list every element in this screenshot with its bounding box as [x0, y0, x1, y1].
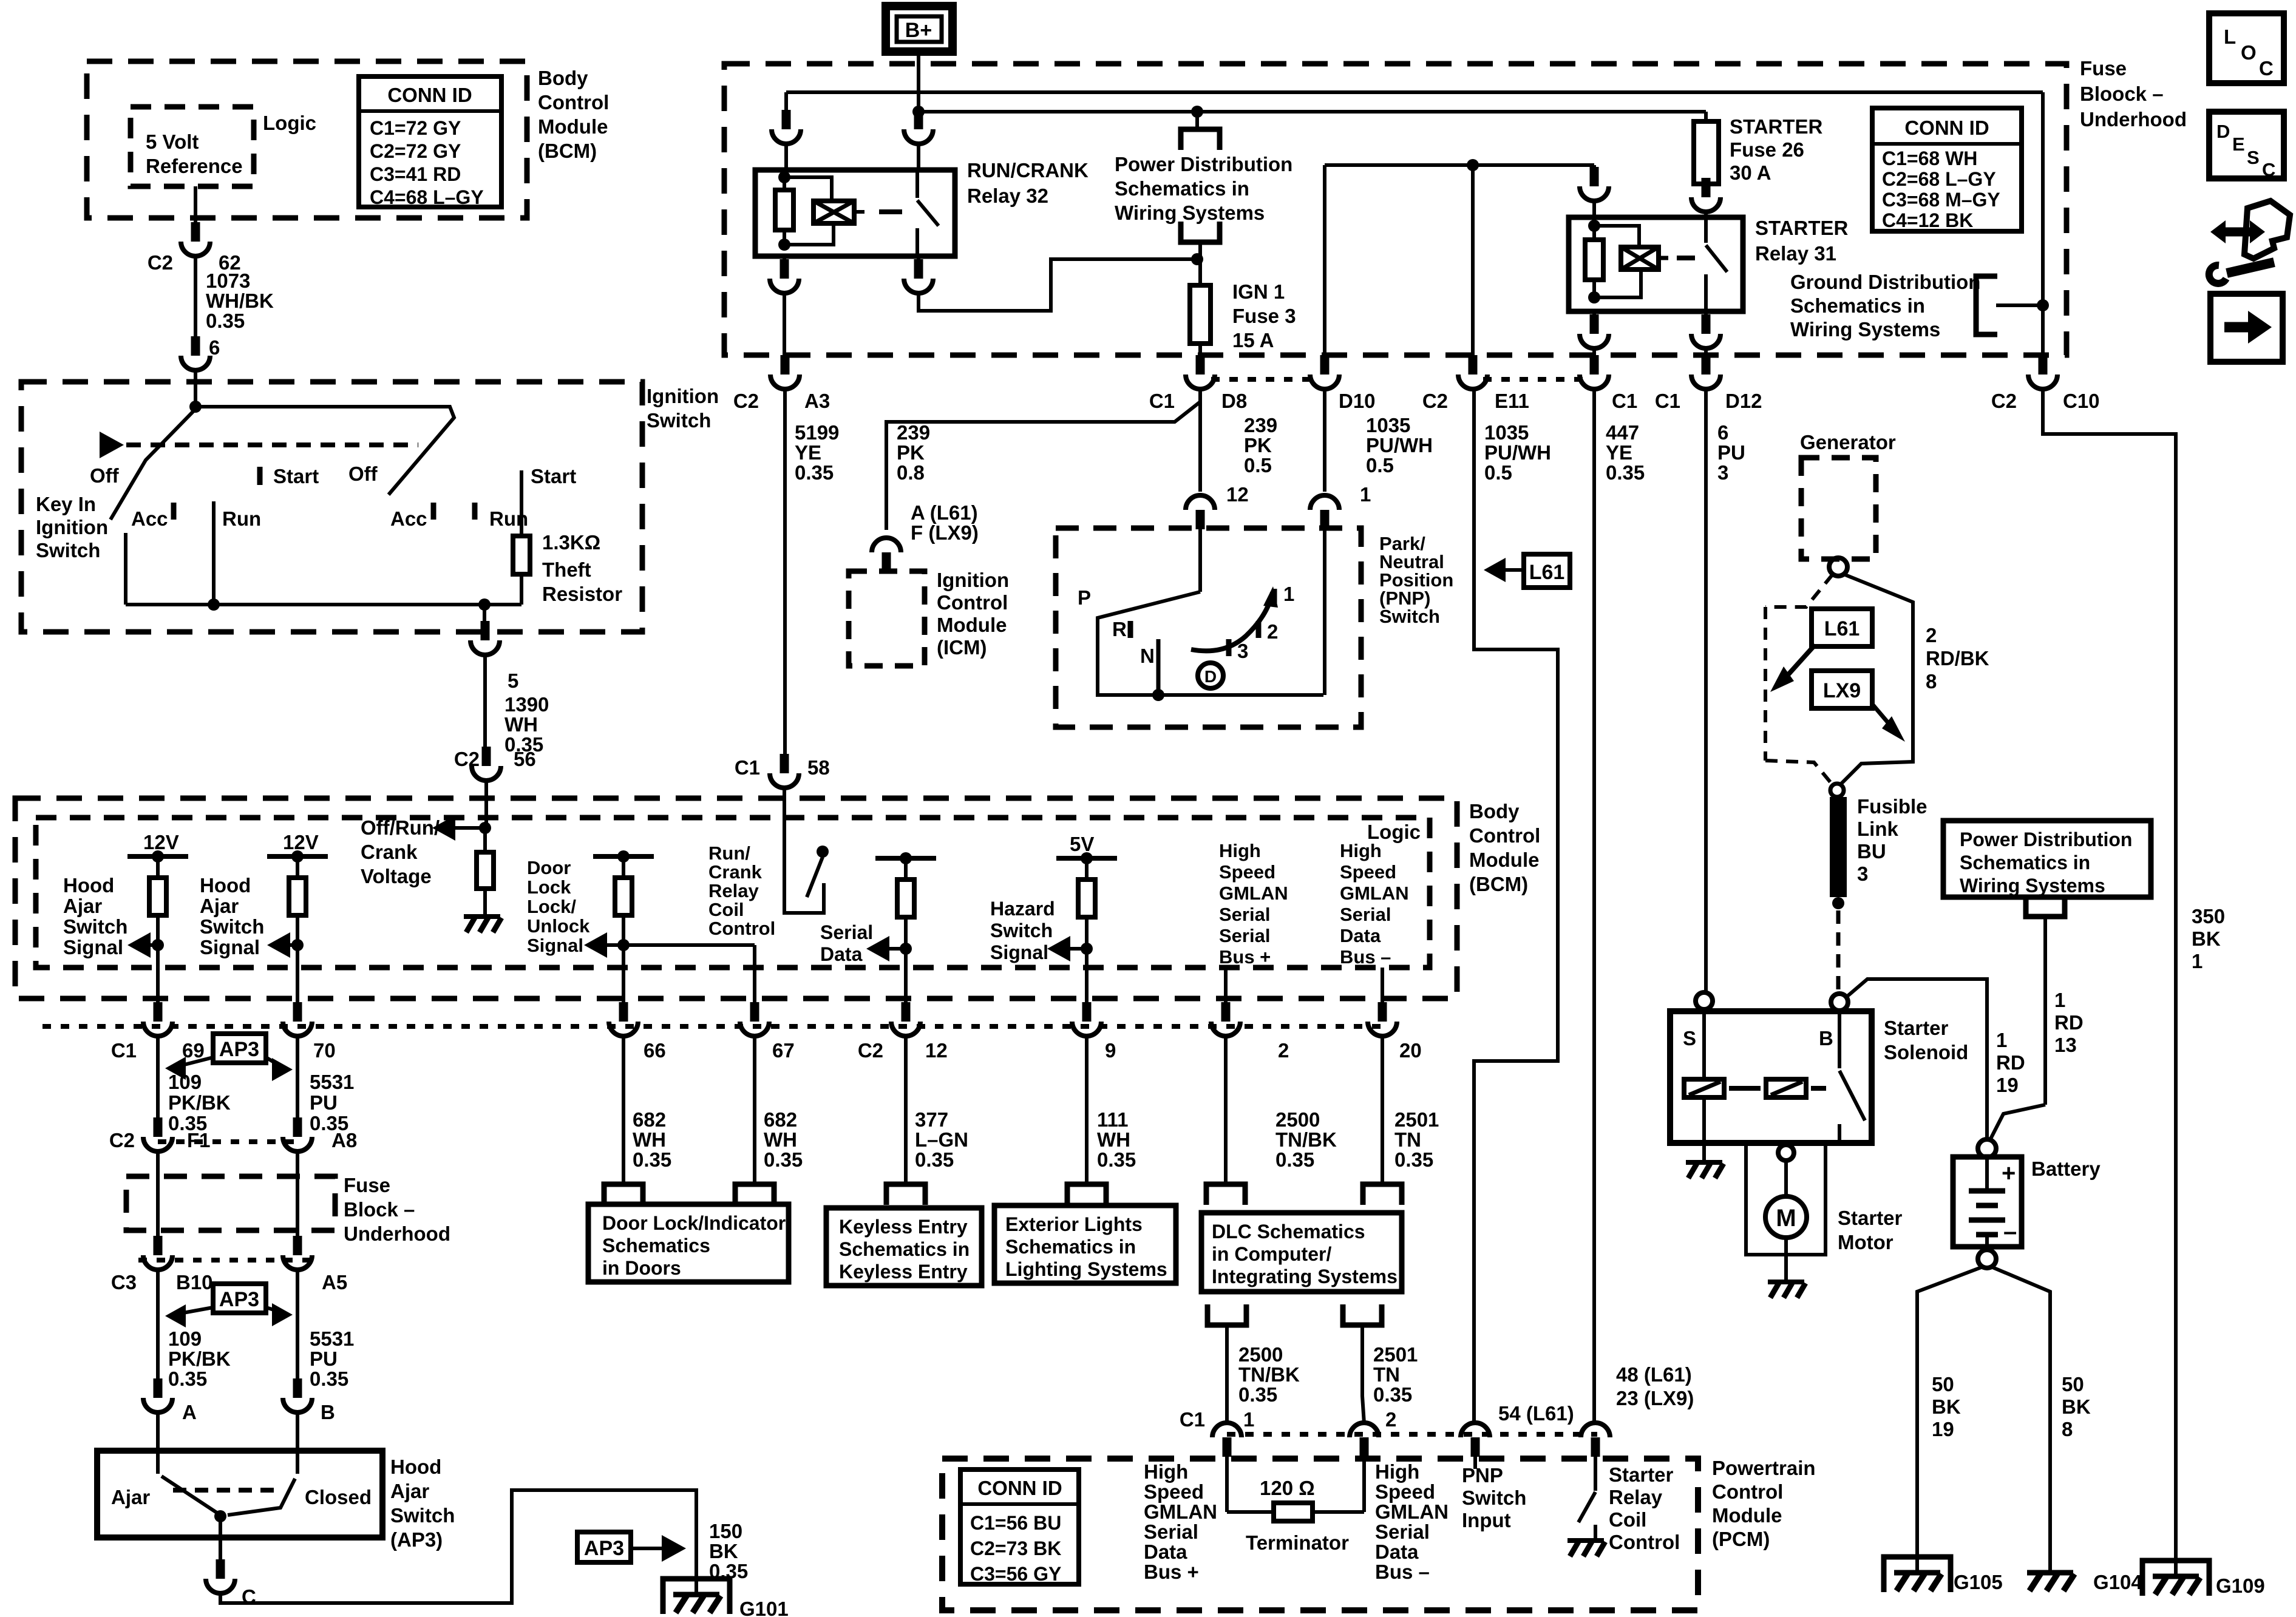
reference bracket keyless: [886, 1184, 925, 1205]
ground G109: [2142, 1561, 2209, 1596]
svg-text:1: 1: [2192, 950, 2203, 972]
reference LX9 box generator: [1812, 671, 1872, 708]
svg-text:Lighting Systems: Lighting Systems: [1005, 1258, 1167, 1280]
svg-text:S: S: [1683, 1027, 1696, 1049]
svg-text:G104: G104: [2093, 1571, 2142, 1593]
svg-text:Ajar: Ajar: [111, 1486, 150, 1508]
resistor 1.3K theft resistor: [513, 536, 530, 574]
svg-text:Schematics in: Schematics in: [1960, 852, 2090, 873]
svg-text:0.5: 0.5: [1366, 454, 1394, 476]
svg-text:Fuse 26: Fuse 26: [1730, 138, 1804, 161]
relay32 coil X box: [813, 201, 854, 223]
connector relay31 coil pin bottom: [1590, 314, 1599, 334]
svg-text:67: 67: [772, 1039, 795, 1062]
svg-text:682: 682: [633, 1108, 666, 1131]
wire C10 to G109: [2043, 389, 2176, 1578]
reference bracket under power distribution: [2026, 896, 2065, 917]
svg-text:70: 70: [313, 1039, 336, 1062]
svg-text:GMLAN: GMLAN: [1219, 883, 1288, 904]
svg-text:8: 8: [2062, 1418, 2073, 1440]
svg-text:Serial: Serial: [1375, 1520, 1430, 1543]
svg-text:Data: Data: [1340, 925, 1381, 946]
connector pin 9: [1082, 1002, 1092, 1022]
wire ignition bottom rail: [126, 603, 521, 606]
contact tick Run right: [472, 503, 478, 520]
svg-text:Ajar: Ajar: [63, 895, 102, 917]
svg-text:BK: BK: [709, 1540, 738, 1562]
svg-text:WH/BK: WH/BK: [206, 290, 274, 312]
svg-text:12V: 12V: [283, 831, 319, 853]
svg-text:RD: RD: [2054, 1011, 2084, 1034]
wire into ignition switch: [194, 371, 197, 408]
connector C1 pin D8: [1196, 355, 1205, 375]
svg-text:15 A: 15 A: [1232, 329, 1274, 351]
svg-text:Keyless Entry: Keyless Entry: [839, 1216, 968, 1238]
mechanical link hood ajar switch: [173, 1488, 274, 1493]
connector row BCM C1/C2 dotted line: [42, 1024, 1382, 1029]
svg-text:Schematics in: Schematics in: [1115, 177, 1249, 200]
svg-text:WH: WH: [764, 1128, 797, 1151]
wire door lock branch right: [623, 943, 755, 947]
connector row PCM dotted: [1227, 1432, 1597, 1437]
reference bracket door lock 66: [622, 1036, 625, 1184]
connector pin 5: [481, 621, 490, 640]
wire starter relay coil drop: [1592, 165, 1596, 182]
module box Body Control Module (BCM) upper: [87, 61, 527, 218]
node serial data pullup: [875, 856, 936, 861]
svg-text:S: S: [2247, 147, 2260, 168]
contact tick 1: [1272, 589, 1277, 606]
svg-text:L–GN: L–GN: [915, 1128, 968, 1151]
bus wire 2: [919, 110, 1706, 114]
svg-text:1035: 1035: [1366, 414, 1410, 436]
svg-text:Off: Off: [348, 463, 378, 485]
wire relay32 switch output jog: [919, 259, 1197, 311]
svg-text:Switch: Switch: [390, 1504, 455, 1527]
connector C2 pin E11: [1469, 355, 1478, 375]
svg-text:D: D: [1204, 667, 1217, 686]
svg-text:Relay: Relay: [1609, 1486, 1663, 1508]
relay31 coil circuit: [1588, 220, 1600, 232]
svg-text:1: 1: [1996, 1029, 2007, 1051]
svg-text:0.35: 0.35: [915, 1148, 954, 1171]
svg-text:A5: A5: [322, 1271, 347, 1293]
switch blade hood ajar right: [228, 1479, 295, 1515]
wire IGN1 to D8: [1198, 344, 1202, 369]
selector arc PNP: [1191, 592, 1272, 651]
svg-text:Door: Door: [527, 857, 571, 878]
svg-text:Coil: Coil: [1609, 1508, 1646, 1531]
fuse STARTER Fuse 26 30A: [1704, 112, 1708, 121]
svg-text:Module: Module: [1712, 1504, 1782, 1527]
wire hood ajar to G101: [220, 1490, 696, 1603]
svg-text:3: 3: [1857, 863, 1868, 885]
arrow serial data: [866, 936, 889, 961]
svg-text:150: 150: [709, 1520, 742, 1542]
connector starter relay coil pin top: [1590, 167, 1599, 186]
svg-text:Solenoid: Solenoid: [1884, 1041, 1968, 1063]
node generator junction: [1830, 784, 1844, 797]
svg-text:Module: Module: [538, 115, 608, 138]
svg-text:Speed: Speed: [1219, 861, 1275, 883]
wire keyless down: [904, 1036, 908, 1184]
svg-text:Serial: Serial: [1340, 904, 1391, 925]
svg-text:E11: E11: [1495, 390, 1529, 412]
svg-text:(AP3): (AP3): [390, 1528, 443, 1551]
svg-text:0.35: 0.35: [1373, 1383, 1412, 1406]
svg-text:12: 12: [1226, 483, 1249, 506]
wire fusible link to battery dashed: [1836, 910, 1841, 992]
svg-text:Unlock: Unlock: [527, 915, 590, 937]
svg-text:13: 13: [2054, 1034, 2077, 1056]
AP3 reference box lower: [213, 1284, 266, 1313]
node ignition switch common junction: [189, 401, 202, 413]
reference bracket dlc out right: [1343, 1304, 1382, 1325]
svg-text:Ignition: Ignition: [937, 569, 1009, 591]
svg-text:STARTER: STARTER: [1755, 217, 1849, 239]
svg-text:Integrating Systems: Integrating Systems: [1212, 1266, 1398, 1287]
svg-text:1390: 1390: [504, 693, 549, 716]
svg-text:Ignition: Ignition: [647, 385, 719, 407]
svg-text:58: 58: [807, 756, 830, 779]
svg-text:C: C: [2259, 57, 2274, 80]
svg-text:Starter: Starter: [1609, 1463, 1674, 1486]
contact tick Start left: [257, 467, 263, 485]
svg-text:AP3: AP3: [219, 1288, 259, 1311]
svg-text:C2: C2: [109, 1129, 135, 1151]
connector C2 pin 12: [902, 1002, 911, 1022]
wire hood2 to switch: [296, 1269, 299, 1394]
svg-text:Serial: Serial: [1219, 904, 1270, 925]
svg-text:3: 3: [1717, 461, 1728, 484]
svg-text:GMLAN: GMLAN: [1144, 1500, 1217, 1523]
wire hood ajar 2 down: [296, 945, 299, 1017]
svg-text:Closed: Closed: [305, 1486, 372, 1508]
wire generator branch LX9 dashed: [1765, 574, 1833, 607]
svg-text:A3: A3: [804, 390, 830, 412]
AP3 reference box right: [577, 1532, 631, 1562]
svg-text:+: +: [2002, 1160, 2016, 1187]
component box STARTER Relay 31: [1569, 217, 1743, 311]
svg-text:Reference: Reference: [146, 155, 243, 177]
reference box Exterior Lights Schematics in Lighting Systems: [994, 1205, 1176, 1283]
wire door lock down: [622, 945, 625, 1017]
svg-text:BK: BK: [2192, 927, 2221, 950]
svg-text:Module: Module: [937, 614, 1007, 636]
terminator circuit: [1225, 1442, 1229, 1512]
svg-text:C2=68 L–GY: C2=68 L–GY: [1882, 168, 1996, 190]
wire D8 to ICM diagonal: [886, 389, 1200, 530]
svg-text:BK: BK: [2062, 1395, 2091, 1418]
wire theft resistor to bottom rail: [520, 574, 523, 605]
reference ground distribution bracket: [1976, 276, 1997, 334]
ground G101: [663, 1579, 730, 1614]
svg-text:in Computer/: in Computer/: [1212, 1243, 1331, 1265]
node output junction: [478, 598, 491, 611]
wire D8 down to PNP: [1198, 389, 1202, 492]
svg-text:2500: 2500: [1275, 1108, 1320, 1131]
svg-text:Signal: Signal: [990, 941, 1048, 963]
wire gmlan bus- down: [1381, 968, 1384, 1017]
wire Acc contact down: [124, 533, 127, 605]
switch starter relay coil control: [1578, 1492, 1595, 1522]
node run junction: [208, 598, 220, 611]
svg-text:Speed: Speed: [1144, 1480, 1204, 1503]
svg-text:C2: C2: [148, 251, 173, 274]
svg-text:C1=56 BU: C1=56 BU: [970, 1512, 1061, 1534]
svg-text:1: 1: [1283, 583, 1294, 605]
svg-text:R: R: [1112, 618, 1127, 640]
svg-text:56: 56: [514, 748, 536, 770]
wire hood1 through fuse block: [156, 1153, 160, 1251]
svg-text:YE: YE: [1606, 441, 1632, 464]
svg-text:Motor: Motor: [1838, 1231, 1894, 1253]
CONN ID table PCM: [960, 1470, 1079, 1584]
svg-text:(ICM): (ICM): [937, 636, 987, 659]
svg-text:Module: Module: [1469, 849, 1539, 871]
solenoid coil 1: [1684, 1079, 1724, 1097]
svg-text:Wiring Systems: Wiring Systems: [1960, 875, 2105, 897]
svg-text:2501: 2501: [1394, 1108, 1439, 1131]
wire B terminal 1 RD 19: [1847, 979, 1987, 1139]
svg-text:0.35: 0.35: [764, 1148, 803, 1171]
wire 1390 WH: [483, 656, 487, 748]
connector C2 pin C10: [2039, 355, 2048, 375]
module box Body Control Module lower: [15, 798, 1457, 998]
svg-text:Schematics: Schematics: [602, 1235, 710, 1256]
svg-text:9: 9: [1105, 1039, 1116, 1062]
node PNP N junction: [1152, 689, 1164, 701]
svg-text:C1=72 GY: C1=72 GY: [370, 117, 461, 139]
svg-text:TN: TN: [1394, 1128, 1421, 1151]
key path dashed with arrow: [100, 432, 124, 458]
wire gmlan bus+ down: [1224, 968, 1228, 1017]
svg-text:C1: C1: [1655, 390, 1680, 412]
svg-text:AP3: AP3: [584, 1537, 624, 1560]
svg-text:A (L61): A (L61): [911, 501, 978, 524]
svg-text:109: 109: [168, 1071, 202, 1093]
connector row C3 dotted: [138, 1258, 316, 1263]
connector PNP pin 1: [1320, 510, 1330, 529]
svg-text:C4=12 BK: C4=12 BK: [1882, 209, 1973, 231]
svg-text:PU/WH: PU/WH: [1484, 441, 1551, 464]
svg-text:C: C: [2262, 159, 2275, 180]
wire dlc bus+ down: [1224, 1036, 1228, 1184]
svg-text:Terminator: Terminator: [1246, 1531, 1349, 1554]
svg-text:A: A: [182, 1401, 197, 1423]
wire ignition common to right contact: [195, 407, 454, 495]
wire motor terminal: [1784, 1161, 1788, 1197]
reference bracket dlc out left: [1207, 1304, 1246, 1325]
contact tick 2: [1256, 621, 1262, 638]
svg-text:RUN/CRANK: RUN/CRANK: [967, 159, 1089, 181]
ground internal BCM: [464, 914, 500, 919]
component box Battery: [1953, 1157, 2022, 1247]
svg-text:48 (L61): 48 (L61): [1616, 1363, 1692, 1386]
svg-text:G105: G105: [1954, 1571, 2003, 1593]
PNP switch body: [1198, 565, 1202, 592]
svg-text:Hood: Hood: [390, 1456, 441, 1478]
svg-text:Body: Body: [538, 67, 588, 89]
svg-text:Control: Control: [708, 918, 775, 939]
svg-text:1035: 1035: [1484, 421, 1529, 444]
svg-text:TN/BK: TN/BK: [1275, 1128, 1337, 1151]
svg-text:Relay: Relay: [708, 880, 759, 901]
connector starter relay switch pin top: [1702, 178, 1711, 197]
svg-text:Battery: Battery: [2031, 1158, 2101, 1180]
connector pin 66: [619, 1002, 628, 1022]
node hood ajar common: [214, 1510, 226, 1522]
wire hood1 to fuse block: [156, 1036, 160, 1133]
svg-text:Door Lock/Indicator: Door Lock/Indicator: [602, 1212, 786, 1234]
svg-text:C1: C1: [1149, 390, 1175, 412]
svg-text:PU: PU: [310, 1091, 338, 1114]
svg-text:Power Distribution: Power Distribution: [1960, 829, 2132, 850]
reference L61 arrow box: [1524, 554, 1570, 588]
svg-text:2: 2: [1385, 1408, 1396, 1431]
connector row fuse block dotted E11-C1: [1483, 377, 1584, 382]
wire start contact to theft resistor: [520, 470, 523, 536]
wire hood ajar 1 down: [156, 945, 160, 1017]
svg-text:CONN ID: CONN ID: [387, 84, 472, 106]
svg-text:High: High: [1375, 1460, 1419, 1483]
wire 1073 WH/BK: [194, 257, 197, 336]
connector C1 pin D12: [1702, 355, 1711, 375]
wire ignition output down: [483, 605, 486, 636]
svg-text:Block –: Block –: [344, 1198, 415, 1221]
svg-text:1.3KΩ: 1.3KΩ: [542, 531, 600, 554]
svg-text:C1: C1: [111, 1039, 137, 1062]
svg-text:Acc: Acc: [390, 507, 427, 530]
ground G105: [1884, 1557, 1951, 1592]
svg-text:Powertrain: Powertrain: [1712, 1457, 1816, 1479]
solenoid switch: [1838, 1011, 1841, 1068]
svg-text:Off/Run/: Off/Run/: [361, 816, 440, 839]
svg-text:BK: BK: [1932, 1395, 1961, 1418]
svg-text:E: E: [2232, 134, 2245, 155]
svg-text:Bus +: Bus +: [1144, 1561, 1199, 1583]
arrow hood ajar switch signal 1: [127, 932, 151, 958]
svg-text:Underhood: Underhood: [344, 1222, 450, 1245]
module box Generator: [1801, 458, 1876, 559]
solenoid coil ground wire: [1702, 1097, 1706, 1162]
svg-text:Input: Input: [1462, 1509, 1511, 1531]
wire bus2 to relay switch: [917, 112, 920, 124]
svg-text:5: 5: [508, 670, 518, 692]
connector pin 20: [1378, 1002, 1387, 1022]
svg-text:Control: Control: [538, 91, 609, 114]
relay31 mechanical dash: [1677, 256, 1695, 260]
svg-text:Relay 32: Relay 32: [967, 185, 1048, 207]
connector C2 pin 62: [191, 222, 200, 242]
wire Run contact down: [212, 501, 216, 605]
node Logic box lower: [36, 818, 1430, 968]
svg-text:CONN ID: CONN ID: [1904, 117, 1989, 139]
svg-text:PK/BK: PK/BK: [168, 1347, 231, 1370]
reference box DLC Schematics in Computer/Integrating Systems: [1201, 1213, 1402, 1292]
reference bracket dlc right: [1363, 1184, 1402, 1205]
svg-text:Schematics in: Schematics in: [1790, 294, 1925, 317]
module box Powertrain Control Module PCM: [942, 1459, 1698, 1610]
svg-text:Key In: Key In: [36, 493, 96, 515]
svg-text:Lock/: Lock/: [527, 896, 576, 917]
wire motor to ground: [1784, 1238, 1788, 1282]
svg-text:TN/BK: TN/BK: [1238, 1363, 1300, 1386]
svg-text:PNP: PNP: [1462, 1464, 1503, 1486]
svg-text:Bus +: Bus +: [1219, 946, 1271, 968]
svg-text:Switch: Switch: [200, 915, 264, 938]
terminal starter solenoid B: [1831, 994, 1848, 1011]
svg-text:Bloock –: Bloock –: [2080, 83, 2164, 105]
wire relay31 switch output: [1704, 348, 1708, 369]
svg-text:2500: 2500: [1238, 1343, 1283, 1366]
svg-text:B10: B10: [176, 1271, 213, 1293]
svg-text:GMLAN: GMLAN: [1375, 1500, 1449, 1523]
contact tick R: [1128, 621, 1133, 638]
svg-text:0.35: 0.35: [633, 1148, 671, 1171]
svg-text:Voltage: Voltage: [361, 865, 432, 887]
module box Park/Neutral Position PNP Switch: [1056, 528, 1361, 727]
switch blade key-in ignition: [110, 409, 195, 520]
svg-text:12: 12: [925, 1039, 948, 1062]
icon wrench and arrows: [2220, 228, 2256, 237]
svg-text:PK: PK: [1244, 434, 1272, 456]
svg-text:0.35: 0.35: [168, 1368, 207, 1390]
wire D10 drop: [1323, 165, 1326, 369]
svg-text:Data: Data: [1375, 1541, 1419, 1563]
svg-text:Fuse 3: Fuse 3: [1232, 305, 1296, 327]
svg-text:20: 20: [1399, 1039, 1422, 1062]
svg-text:Serial: Serial: [820, 921, 873, 943]
solenoid coil 2: [1766, 1079, 1806, 1097]
svg-text:Lock: Lock: [527, 876, 571, 898]
svg-text:Run/: Run/: [708, 842, 750, 864]
svg-text:PU/WH: PU/WH: [1366, 434, 1433, 456]
svg-text:B: B: [1819, 1027, 1833, 1049]
svg-text:Control: Control: [1609, 1531, 1680, 1553]
svg-text:Underhood: Underhood: [2080, 108, 2187, 131]
svg-text:TN: TN: [1373, 1363, 1400, 1386]
svg-text:1073: 1073: [206, 269, 250, 292]
starter motor housing: [1746, 1143, 1826, 1255]
svg-text:Starter: Starter: [1884, 1017, 1949, 1039]
wire bus3 D10 E11: [1325, 163, 1594, 167]
svg-text:in Doors: in Doors: [602, 1257, 681, 1279]
node IGN1 feed junction: [1191, 253, 1203, 265]
connector pin 54 L61 PCM: [1471, 1437, 1480, 1457]
svg-text:C1: C1: [1180, 1408, 1205, 1431]
svg-text:Hazard: Hazard: [990, 898, 1055, 920]
svg-text:5V: 5V: [1070, 833, 1094, 855]
svg-text:Speed: Speed: [1340, 861, 1396, 883]
svg-text:Power Distribution: Power Distribution: [1115, 153, 1292, 175]
reference box Door Lock/Indicator Schematics in Doors: [588, 1204, 789, 1282]
svg-text:DLC Schematics: DLC Schematics: [1212, 1221, 1365, 1242]
wire A3 down to C1 58: [783, 389, 787, 754]
reference Power Distribution out: [1195, 112, 1199, 128]
reference bracket dlc left: [1206, 1184, 1245, 1205]
contact tick 3: [1226, 639, 1232, 656]
connector pin 2 PCM: [1360, 1437, 1369, 1457]
svg-text:Acc: Acc: [131, 507, 168, 530]
component box Hood Ajar Switch AP3: [97, 1451, 382, 1537]
svg-text:Schematics in: Schematics in: [839, 1238, 970, 1260]
svg-text:23 (LX9): 23 (LX9): [1616, 1387, 1694, 1409]
component box RUN/CRANK Relay 32: [755, 170, 955, 256]
wire hood1 to switch: [156, 1269, 160, 1394]
arrow hazard switch signal: [1047, 936, 1070, 961]
relay31 coil X box: [1621, 247, 1659, 269]
